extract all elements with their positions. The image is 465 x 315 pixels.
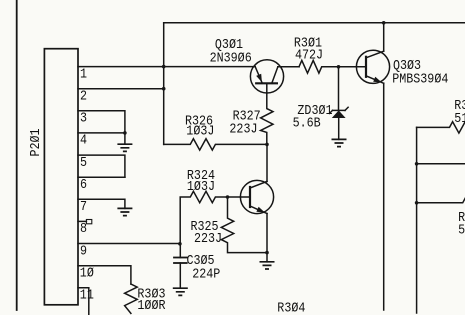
svg-text:5: 5 xyxy=(80,154,87,170)
svg-text:6: 6 xyxy=(80,176,87,192)
svg-text:223J: 223J xyxy=(194,230,222,246)
svg-text:5: 5 xyxy=(458,221,465,237)
svg-text:472J: 472J xyxy=(295,46,323,62)
svg-text:PMBS39Ø4: PMBS39Ø4 xyxy=(392,70,448,86)
svg-text:P2Ø1: P2Ø1 xyxy=(27,128,43,156)
svg-text:512: 512 xyxy=(454,110,465,126)
svg-text:1Ø3J: 1Ø3J xyxy=(187,178,215,194)
svg-text:2N39Ø6: 2N39Ø6 xyxy=(210,49,252,65)
svg-text:223J: 223J xyxy=(229,121,257,137)
svg-text:9: 9 xyxy=(80,242,87,258)
svg-text:R3Ø4: R3Ø4 xyxy=(277,299,305,315)
svg-text:1: 1 xyxy=(80,65,87,81)
svg-text:11: 11 xyxy=(80,287,94,303)
svg-text:8: 8 xyxy=(80,220,87,236)
svg-text:3: 3 xyxy=(80,110,87,126)
svg-text:4: 4 xyxy=(80,132,87,148)
svg-text:1Ø3J: 1Ø3J xyxy=(186,122,214,138)
svg-text:2: 2 xyxy=(80,87,87,103)
svg-text:7: 7 xyxy=(80,198,87,214)
svg-text:1Ø: 1Ø xyxy=(80,264,94,280)
svg-text:5.6B: 5.6B xyxy=(293,115,321,131)
svg-text:1ØØR: 1ØØR xyxy=(137,297,165,313)
svg-text:224P: 224P xyxy=(192,265,220,281)
